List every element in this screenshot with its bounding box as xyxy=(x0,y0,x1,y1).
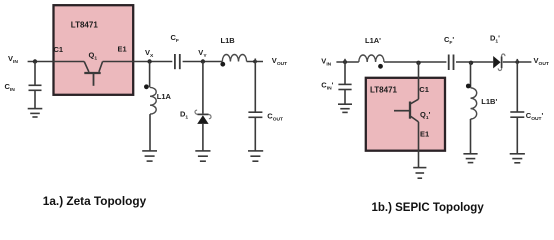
svg-text:L1B: L1B xyxy=(221,36,236,45)
svg-text:VOUT: VOUT xyxy=(272,56,287,67)
svg-text:LT8471: LT8471 xyxy=(370,85,398,94)
svg-text:LT8471: LT8471 xyxy=(71,21,99,30)
svg-text:VIN: VIN xyxy=(321,56,331,67)
svg-text:E1: E1 xyxy=(118,44,127,53)
svg-text:C1: C1 xyxy=(419,85,429,94)
svg-text:D1: D1 xyxy=(180,110,188,121)
svg-text:VIN: VIN xyxy=(8,54,18,65)
svg-text:D1': D1' xyxy=(490,34,500,45)
svg-text:VX: VX xyxy=(145,48,154,59)
svg-text:1b.) SEPIC Topology: 1b.) SEPIC Topology xyxy=(372,202,485,214)
svg-text:VY: VY xyxy=(198,48,207,59)
svg-text:COUT: COUT xyxy=(267,112,283,123)
svg-text:L1A: L1A xyxy=(157,92,172,101)
svg-text:VOUT: VOUT xyxy=(534,56,549,67)
svg-text:CIN: CIN xyxy=(5,82,16,93)
svg-text:CF': CF' xyxy=(444,35,454,46)
svg-text:L1B': L1B' xyxy=(481,97,497,106)
svg-text:CIN': CIN' xyxy=(321,80,333,91)
svg-text:C1: C1 xyxy=(54,45,64,54)
svg-text:L1A': L1A' xyxy=(365,36,381,45)
svg-text:1a.) Zeta Topology: 1a.) Zeta Topology xyxy=(43,194,147,208)
svg-text:CF: CF xyxy=(171,33,179,44)
svg-text:E1: E1 xyxy=(420,130,429,139)
svg-text:COUT': COUT' xyxy=(526,111,544,122)
